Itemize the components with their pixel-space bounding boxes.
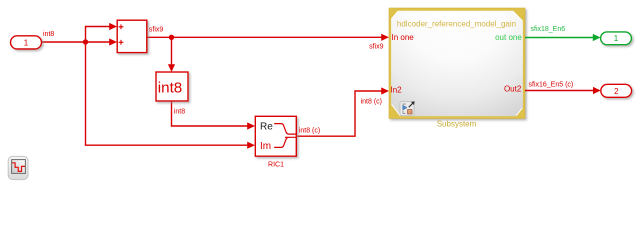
svg-text:RIC1: RIC1 <box>268 161 284 168</box>
svg-text:Out2: Out2 <box>504 85 522 94</box>
svg-text:sfix9: sfix9 <box>369 43 384 50</box>
svg-text:int8: int8 <box>158 79 183 96</box>
svg-text:out one: out one <box>495 33 522 42</box>
svg-text:int8: int8 <box>174 108 185 115</box>
svg-text:1: 1 <box>24 38 29 47</box>
svg-text:sfix18_En6: sfix18_En6 <box>531 26 566 33</box>
svg-text:In2: In2 <box>391 85 403 94</box>
svg-text:sfix9: sfix9 <box>149 27 164 34</box>
svg-text:Re: Re <box>260 121 273 132</box>
svg-text:Subsystem: Subsystem <box>437 120 477 129</box>
svg-text:1: 1 <box>614 34 619 43</box>
svg-text:int8 (c): int8 (c) <box>361 99 382 106</box>
svg-text:hdlcoder_referenced_model_gain: hdlcoder_referenced_model_gain <box>397 19 516 28</box>
svg-text:int8: int8 <box>43 31 54 38</box>
svg-text:int8 (c): int8 (c) <box>299 127 320 134</box>
svg-text:2: 2 <box>614 87 619 96</box>
svg-text:In one: In one <box>392 33 415 42</box>
svg-text:sfix16_En5 (c): sfix16_En5 (c) <box>529 82 574 89</box>
svg-text:Im: Im <box>260 141 271 152</box>
